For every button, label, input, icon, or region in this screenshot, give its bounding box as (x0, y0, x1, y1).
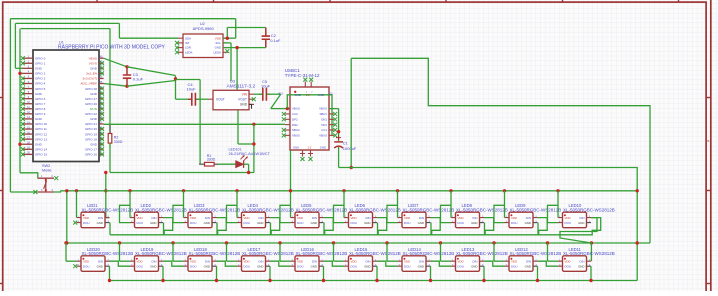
wire bus to LED1 VDD (76, 191, 78, 218)
svg-text:DIN: DIN (205, 216, 210, 220)
wire chain LED9 GND to LED10 DIN (538, 218, 601, 235)
U1 right pin 24 GPIO 18 (99, 138, 104, 140)
svg-text:DIN: DIN (312, 216, 317, 220)
svg-text:GND: GND (35, 67, 43, 71)
U1 left pin 9 GPIO 6 (23, 98, 34, 100)
U1 right pin 32 GPIO 27 (99, 98, 104, 100)
svg-text:GND: GND (418, 221, 424, 225)
svg-text:VDD: VDD (458, 259, 464, 263)
svg-text:A12: A12 (328, 92, 333, 95)
wire chain LED14 to LED15 (377, 261, 398, 266)
U1 right pin 37 3v3_EN (99, 72, 104, 74)
U2 right pin VDD (223, 37, 228, 39)
wire U3 VIN to C5 (254, 93, 262, 95)
USBC1 left pin CC2 (285, 113, 290, 115)
wire 3V3 left rail down (9, 19, 11, 192)
svg-text:GND: GND (150, 264, 156, 268)
wire bottom LED bus (110, 280, 637, 282)
wire chain LED7 GND to LED8 DIN (431, 218, 494, 235)
U1 right pin 25 GPIO 19 (99, 133, 104, 135)
USBC1 shield pads P1 P2 (300, 150, 305, 157)
wire VDD to C2 top (226, 28, 228, 39)
U1 left pin 1 GPIO 0 (23, 57, 34, 59)
svg-text:DIN: DIN (152, 216, 157, 220)
wire bus to LED10 VDD (557, 191, 559, 218)
svg-text:DIN: DIN (580, 216, 585, 220)
svg-text:VDD: VDD (351, 216, 357, 220)
IC U3 AMS1117 body (213, 90, 249, 110)
wire mid bus to LED17 VDD (226, 243, 228, 261)
svg-text:DIN: DIN (526, 216, 531, 220)
svg-text:3v3 (OUT): 3v3 (OUT) (83, 77, 97, 81)
svg-text:DIN: DIN (580, 259, 585, 263)
svg-text:SDA: SDA (185, 36, 191, 40)
svg-text:GND: GND (364, 221, 370, 225)
wire SDA left vertical (14, 23, 16, 68)
wire mid LED bus (67, 242, 650, 244)
junction mid bus LED11 (546, 241, 549, 244)
svg-text:XL-5050RGBC-WS2812B: XL-5050RGBC-WS2812B (403, 208, 455, 213)
U1 left pin 10 GPIO 7 (23, 103, 34, 105)
wire chain LED5 GND to LED6 DIN (324, 218, 387, 235)
SW2 actuator (45, 178, 47, 192)
U2 right pin LEDA (223, 51, 228, 53)
wire LED2 GND drop (163, 223, 165, 235)
svg-text:DOU: DOU (511, 221, 517, 225)
junction U2 GND (235, 46, 238, 49)
wire LED20 GND to bottom bus (109, 266, 111, 280)
svg-text:GPIO 2: GPIO 2 (35, 72, 46, 76)
svg-text:GPIO 22: GPIO 22 (85, 112, 97, 116)
connector USBC1 body (290, 87, 329, 150)
wire into C4 (176, 98, 192, 100)
svg-text:GPIO 20: GPIO 20 (85, 127, 97, 131)
svg-text:DIN: DIN (473, 216, 478, 220)
wire top LED bus (61, 190, 638, 192)
svg-text:GPIO 19: GPIO 19 (85, 132, 97, 136)
wire chain LED10 to LED11 (560, 218, 597, 262)
svg-text:330Ω: 330Ω (207, 158, 216, 162)
svg-text:GPIO 6: GPIO 6 (35, 97, 46, 101)
svg-text:B12: B12 (279, 92, 284, 95)
capacitor C1 polarized (336, 135, 341, 140)
svg-text:GND: GND (257, 221, 263, 225)
svg-text:0.1uF: 0.1uF (270, 38, 281, 43)
svg-text:DOU: DOU (190, 264, 196, 268)
wire SCL down (230, 43, 232, 81)
svg-text:DIN: DIN (419, 259, 424, 263)
LED LED1 WS2812 (81, 212, 105, 228)
resistor R1 (199, 163, 218, 165)
LED LED2 WS2812 (135, 212, 159, 228)
svg-text:3v3_EN: 3v3_EN (86, 72, 97, 76)
U3 left pin VOUT (208, 98, 213, 100)
svg-text:VDD: VDD (83, 259, 89, 263)
wire mid bus to LED15 VDD (333, 243, 335, 261)
U1 right pin 27 GPIO 21 (99, 123, 104, 125)
wire LED15 GND to bottom bus (376, 266, 378, 280)
no-connect pad P1 (301, 157, 305, 161)
junction C1 top (337, 130, 340, 133)
svg-text:GND: GND (90, 92, 98, 96)
wire USBC VBUS right (329, 108, 339, 110)
svg-text:DIN: DIN (259, 259, 264, 263)
wire U3 GND down (237, 110, 239, 144)
svg-text:GPIO 5: GPIO 5 (35, 87, 46, 91)
svg-text:DN1: DN1 (321, 117, 327, 121)
wire C2 top run (227, 27, 265, 29)
svg-text:GND: GND (471, 221, 477, 225)
svg-text:SBU2: SBU2 (292, 128, 300, 132)
U2 left pin SDA (178, 37, 183, 39)
USBC1 right pin SBU1 (329, 113, 334, 115)
junction C3 top (125, 65, 128, 68)
wire mid bus to LED16 VDD (279, 243, 281, 261)
svg-text:VBUS: VBUS (319, 133, 327, 137)
wire R1 to LED101 (219, 163, 236, 165)
U1 right pin 33 GND (99, 93, 104, 95)
wire LED18 GND to bottom bus (216, 266, 218, 280)
junction bus LED2 (128, 189, 131, 192)
junction mid bus LED16 (278, 241, 281, 244)
wire into LED12 VDD (494, 260, 505, 262)
wire return rail down to LED1 (105, 173, 107, 218)
svg-text:GND: GND (295, 93, 301, 97)
junction tap GPIO 2 (18, 72, 21, 75)
svg-text:DIN: DIN (526, 259, 531, 263)
svg-text:GPIO 13: GPIO 13 (35, 137, 47, 141)
wire LED13 GND to bottom bus (483, 266, 485, 280)
U1 left pin 11 GPIO 8 (23, 108, 34, 110)
U1 right pin 30 RUN (99, 108, 104, 110)
wire C1 bottom down (338, 147, 340, 168)
wire arch LED8 DOU to riser (441, 205, 452, 222)
USBC1 GND staple wire over connector (287, 95, 332, 136)
U1 left pin 5 GPIO 3 (23, 77, 34, 79)
wire 3V3 top net to U2 VDD (10, 18, 235, 20)
no-connect SW2 pin 3 (33, 190, 37, 194)
U1 left pin 14 GPIO 10 (23, 123, 34, 125)
U1 right pin 36 3v3 (OUT) (99, 77, 104, 79)
svg-text:APDS-9960: APDS-9960 (193, 26, 215, 31)
USBC1 left pin SBU2 (285, 129, 290, 131)
wire LED16 GND to bottom bus (323, 266, 325, 280)
no-connect pad P2 (309, 157, 313, 161)
svg-text:DIN: DIN (98, 216, 103, 220)
wire into LED17 VDD (227, 260, 238, 262)
svg-text:DOU: DOU (458, 221, 464, 225)
svg-text:DOU: DOU (83, 221, 89, 225)
wire branch down to return line (253, 124, 255, 172)
wire chain LED12 to LED13 (484, 261, 505, 266)
wire U2 GND pin to net (223, 47, 237, 49)
wire chain LED11 to LED12 (538, 261, 559, 266)
svg-text:DOU: DOU (244, 221, 250, 225)
svg-text:GND: GND (35, 142, 43, 146)
wire USBC GND down to bus and LED5 (290, 150, 292, 218)
wire node vertical (175, 76, 177, 81)
wire SDA into U2 (119, 37, 178, 39)
svg-text:GPIO 16: GPIO 16 (85, 153, 97, 157)
wire into SW2 pin 1 (20, 173, 38, 178)
wire LED101 out (244, 163, 249, 165)
svg-text:XL-5050RGBC-WS2812B: XL-5050RGBC-WS2812B (135, 208, 187, 213)
U1 left pin 19 GPIO 14 (23, 148, 34, 150)
U1 left pin 6 GPIO 4 (23, 83, 34, 85)
LED LED3 WS2812 (188, 212, 212, 228)
svg-text:GND: GND (320, 145, 326, 149)
wire into LED19 VDD (120, 260, 131, 262)
wire into LED16 VDD (280, 260, 291, 262)
svg-text:VBUS: VBUS (292, 133, 300, 137)
svg-text:CC1: CC1 (321, 128, 327, 132)
junction bus LED8 (449, 189, 452, 192)
U1 left pin 8 GND (23, 93, 34, 95)
svg-text:XL-5050RGBC-WS2812B: XL-5050RGBC-WS2812B (296, 208, 348, 213)
svg-text:GPIO 17: GPIO 17 (85, 147, 97, 151)
U1 right pin 28 GND (99, 118, 104, 120)
junction bus LED3 (182, 189, 185, 192)
svg-text:RASPBERRY PI PICO WITH 3D MODE: RASPBERRY PI PICO WITH 3D MODEL COPY (58, 44, 166, 50)
svg-text:GND: GND (525, 264, 531, 268)
U3 GND stub down (249, 104, 252, 108)
svg-text:VBUS: VBUS (292, 107, 300, 111)
wire LED1 GND drop (109, 223, 111, 235)
junction mid bus LED19 (118, 241, 121, 244)
wire chain LED17 to LED18 (217, 261, 238, 266)
frame column ticks top (96, 0, 98, 2)
svg-text:GPIO 7: GPIO 7 (35, 102, 46, 106)
LED LED7 WS2812 (402, 212, 426, 228)
svg-text:RUN: RUN (90, 107, 97, 111)
wire LED3 GND drop (216, 223, 218, 235)
U1 right pin 38 GND (99, 67, 104, 69)
wire ADC diagonal to C3 bottom (104, 84, 127, 87)
svg-text:DIN: DIN (366, 216, 371, 220)
svg-text:DOU: DOU (404, 264, 410, 268)
wire bus to LED7 VDD (397, 191, 399, 218)
LED LED17 WS2812 (242, 256, 266, 271)
svg-text:XL-5050RGBC-WS2812B: XL-5050RGBC-WS2812B (189, 208, 241, 213)
wire down to C4 line (175, 81, 177, 100)
junction rail (104, 171, 107, 174)
wire return line (110, 172, 254, 174)
svg-text:GPIO 21: GPIO 21 (85, 122, 97, 126)
U1 left pin 12 GPIO 9 (23, 113, 34, 115)
svg-text:GND: GND (90, 117, 98, 121)
junction mid bus LED18 (171, 241, 174, 244)
wire into USBC VBUS (271, 108, 285, 110)
svg-text:DOU: DOU (137, 221, 143, 225)
svg-text:DN2: DN2 (292, 123, 298, 127)
junction U2 VDD (226, 37, 229, 40)
svg-text:DOU: DOU (137, 264, 143, 268)
junction supply node (174, 77, 177, 80)
junction diagonal at mid bus (590, 241, 593, 244)
capacitor C4 (188, 98, 199, 100)
no-connect LED1 DOU (73, 221, 77, 225)
svg-text:XL-5050RGBC-WS2812B: XL-5050RGBC-WS2812B (510, 208, 562, 213)
wire VBUS riser right of USBC (350, 58, 352, 167)
svg-text:VBUS: VBUS (89, 56, 97, 60)
wire mid bus to LED11 VDD (547, 243, 549, 261)
LED LED10 WS2812 (563, 212, 587, 228)
U1 left pin 2 GPIO 1 (23, 62, 34, 64)
svg-text:XL-5050RGBC-WS2812B: XL-5050RGBC-WS2812B (242, 208, 294, 213)
svg-text:INT: INT (185, 41, 190, 45)
svg-text:LEDA: LEDA (213, 50, 221, 54)
IC U1 Raspberry Pi Pico body (33, 50, 99, 162)
wire chain LED6 GND to LED7 DIN (378, 218, 441, 235)
svg-text:GND: GND (318, 93, 324, 97)
U1 right pin 39 VSYS (99, 62, 104, 64)
wire rail to SW2 bottom (10, 191, 37, 193)
svg-text:GND: GND (150, 221, 156, 225)
sheet frame outer border right (710, 0, 712, 291)
LED101 indicator diode (236, 161, 244, 168)
svg-text:GND: GND (215, 46, 221, 50)
wire tap GPIO 14 (20, 143, 23, 145)
USBC1 left pin VBUS (285, 134, 290, 136)
wire LED14 GND to bottom bus (430, 266, 432, 280)
wire arch LED9 DOU to riser (494, 205, 505, 222)
svg-text:VDD: VDD (565, 259, 571, 263)
svg-text:DOU: DOU (351, 264, 357, 268)
U1 right pin 26 GPIO 20 (99, 128, 104, 130)
svg-text:GPIO 18: GPIO 18 (85, 137, 97, 141)
svg-text:GPIO 11: GPIO 11 (35, 127, 47, 131)
svg-text:VDD: VDD (137, 259, 143, 263)
wire bus to LED9 VDD (504, 191, 506, 218)
svg-text:XL-5050RGBC-WS2812B: XL-5050RGBC-WS2812B (510, 251, 562, 256)
svg-text:U3: U3 (230, 78, 236, 83)
U1 left pin 16 GPIO 12 (23, 133, 34, 135)
U1 left pin 4 GPIO 2 (23, 72, 34, 74)
svg-text:VDD: VDD (511, 259, 517, 263)
svg-text:GND: GND (418, 264, 424, 268)
svg-text:SCL: SCL (215, 41, 221, 45)
U1 right pin 40 VBUS (99, 57, 104, 59)
wire U3 GND to branch (238, 143, 254, 145)
wire into LED14 VDD (387, 260, 398, 262)
svg-text:GPIO 10: GPIO 10 (35, 122, 47, 126)
junction bus LED4 (235, 189, 238, 192)
svg-text:LEDK: LEDK (185, 50, 193, 54)
svg-text:DOU: DOU (190, 221, 196, 225)
USBC1 left pin VBUS (285, 108, 290, 110)
svg-text:DIN: DIN (205, 259, 210, 263)
USBC1 right pin VBUS (329, 134, 334, 136)
svg-text:DOU: DOU (297, 221, 303, 225)
junction tap GPIO 14 (18, 143, 21, 146)
capacitor C2 (265, 28, 267, 48)
svg-text:VDD: VDD (404, 259, 410, 263)
svg-text:XL-5050RGBC-WS2812B: XL-5050RGBC-WS2812B (563, 208, 615, 213)
wire R2 bottom down (109, 143, 111, 172)
svg-text:VSYS: VSYS (89, 61, 97, 65)
wire C5 to USBC (267, 93, 281, 95)
LED LED5 WS2812 (295, 212, 319, 228)
svg-text:TYPE-C-31-M-12: TYPE-C-31-M-12 (285, 73, 320, 78)
wire mid bus to LED12 VDD (493, 243, 495, 261)
wire mid bus to LED14 VDD (386, 243, 388, 261)
no-connect U2 LEDA (225, 49, 229, 53)
junction LED101 at return (247, 171, 250, 174)
svg-text:DP1: DP1 (321, 123, 327, 127)
wire chain LED8 GND to LED9 DIN (485, 218, 548, 235)
LED LED9 WS2812 (509, 212, 533, 228)
wire LED4 GND drop (270, 223, 272, 235)
junction bus LED6 (342, 189, 345, 192)
svg-text:GPIO 8: GPIO 8 (35, 107, 46, 111)
wire U2 SCL right (223, 42, 231, 44)
svg-text:1000uF: 1000uF (343, 146, 357, 151)
LED LED8 WS2812 (456, 212, 480, 228)
svg-text:XL-5050RGBC-WS2812B: XL-5050RGBC-WS2812B (349, 208, 401, 213)
wire LED5 GND drop (323, 223, 325, 235)
junction bus LED5 (289, 189, 292, 192)
wire chain LED4 GND to LED5 DIN (271, 218, 334, 235)
svg-text:LDR: LDR (185, 46, 191, 50)
wire arch LED5 DOU to riser (280, 205, 291, 222)
svg-text:DOU: DOU (458, 264, 464, 268)
wire bus to LED6 VDD (343, 191, 345, 218)
USBC1 left pin DN2 (285, 124, 290, 126)
svg-text:VDD: VDD (244, 259, 250, 263)
svg-text:DOU: DOU (511, 264, 517, 268)
wire R2 rail down (109, 29, 111, 134)
no-connect LED20 DOU (73, 264, 77, 268)
svg-text:DOU: DOU (297, 264, 303, 268)
svg-text:2-2: 2-2 (308, 145, 312, 149)
LED LED16 WS2812 (295, 256, 319, 271)
SW2 top contact bar (38, 177, 54, 179)
LED LED4 WS2812 (242, 212, 266, 228)
svg-text:DOU: DOU (351, 221, 357, 225)
wire bus to LED4 VDD (236, 191, 238, 218)
U2 left pin INT (178, 42, 183, 44)
svg-text:DIN: DIN (419, 216, 424, 220)
svg-text:SW2: SW2 (42, 164, 50, 168)
wire LED19 GND to bottom bus (162, 266, 164, 280)
junction mid bus LED17 (225, 241, 228, 244)
U1 right pin 29 GPIO 22 (99, 113, 104, 115)
junction VBUS riser (350, 166, 353, 169)
USBC1 pin1 marker dot (294, 91, 296, 93)
svg-text:GPIO 4: GPIO 4 (35, 82, 46, 86)
U2 left pin LDR (178, 47, 183, 49)
wire vertical to R1 (199, 80, 201, 165)
svg-text:Mode: Mode (42, 168, 52, 172)
svg-text:GND: GND (293, 145, 299, 149)
U1 right pin 31 GPIO 26 (99, 103, 104, 105)
svg-text:B: B (707, 139, 709, 143)
svg-text:GND: GND (364, 264, 370, 268)
U1 left pin 15 GPIO 11 (23, 128, 34, 130)
svg-text:DOU: DOU (404, 221, 410, 225)
svg-text:DIN: DIN (98, 259, 103, 263)
junction bus LED1 (75, 189, 78, 192)
wire left vertical to SW2 (19, 29, 21, 173)
svg-text:GPIO 14: GPIO 14 (35, 147, 47, 151)
junction bus LED7 (396, 189, 399, 192)
U2 right pin SCL (223, 42, 228, 44)
svg-text:VDD: VDD (215, 36, 221, 40)
wire into LED1 DIN (106, 217, 110, 219)
svg-text:GND: GND (90, 67, 98, 71)
junction mid bus LED14 (385, 241, 388, 244)
junction mid bus LED13 (439, 241, 442, 244)
